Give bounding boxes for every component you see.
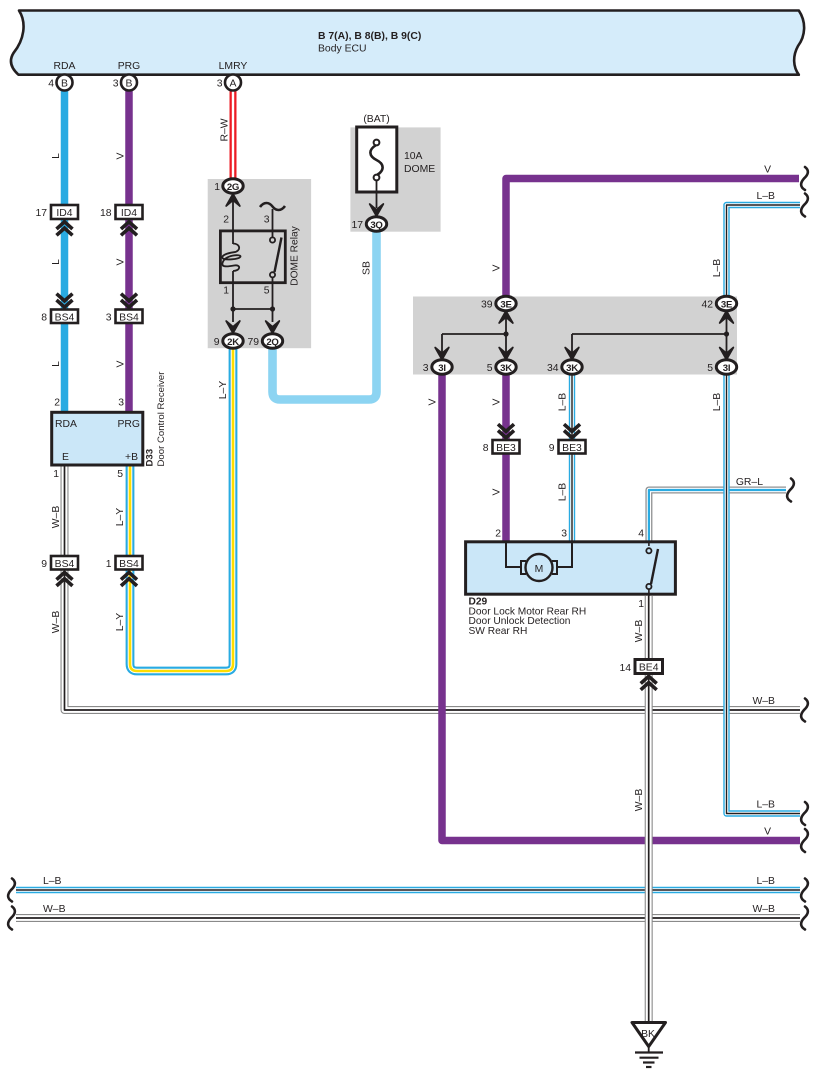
svg-text:18: 18: [100, 208, 112, 219]
svg-text:5: 5: [487, 363, 493, 374]
svg-text:V: V: [492, 264, 503, 271]
wire V from 3K to D29 pin2: [502, 367, 510, 542]
solid arrow down into 3Q: [370, 204, 384, 216]
svg-text:1: 1: [214, 182, 220, 193]
svg-text:SB: SB: [362, 261, 373, 275]
connector box BS4 lower right: [106, 556, 143, 586]
svg-text:L–B: L–B: [43, 876, 62, 887]
svg-text:1: 1: [638, 599, 644, 610]
svg-text:V: V: [116, 152, 127, 159]
svg-text:8: 8: [41, 313, 47, 324]
svg-text:5: 5: [117, 469, 123, 480]
solid arrow down into 3K right: [565, 348, 579, 360]
torn edge squiggle W-B right: [801, 699, 808, 722]
svg-text:V: V: [492, 488, 503, 495]
svg-text:M: M: [535, 564, 544, 575]
wire W-B bottom bus: [16, 914, 800, 922]
svg-text:3Q: 3Q: [370, 220, 383, 231]
ground symbol BK: [632, 1023, 666, 1068]
torn edge squiggle L-B right mid: [801, 802, 808, 825]
svg-text:L–Y: L–Y: [115, 508, 126, 527]
wire L-B from 3I right down and right: [727, 367, 801, 814]
tie line right: [572, 333, 727, 335]
svg-text:BE3: BE3: [562, 443, 582, 454]
svg-text:3E: 3E: [721, 299, 733, 310]
svg-text:5: 5: [707, 363, 713, 374]
svg-text:2: 2: [495, 529, 501, 540]
svg-text:L: L: [51, 259, 62, 265]
svg-text:B 7(A), B 8(B), B 9(C): B 7(A), B 8(B), B 9(C): [318, 31, 421, 42]
svg-text:V: V: [428, 398, 439, 405]
svg-text:GR–L: GR–L: [736, 477, 763, 488]
svg-text:1: 1: [223, 286, 229, 297]
svg-text:B: B: [126, 78, 133, 89]
svg-text:2: 2: [223, 214, 229, 225]
svg-text:V: V: [764, 165, 771, 176]
gray block DOME Relay background: [208, 179, 311, 348]
svg-text:V: V: [116, 360, 127, 367]
svg-text:3: 3: [113, 79, 119, 90]
relay inner box: [220, 231, 285, 283]
svg-text:3E: 3E: [500, 299, 512, 310]
svg-text:9: 9: [214, 337, 220, 348]
svg-text:2G: 2G: [227, 182, 239, 193]
torn edge squiggle GR-L: [787, 479, 794, 502]
svg-text:1: 1: [106, 559, 112, 570]
torn edge squiggle L-B top: [801, 194, 808, 217]
svg-text:17: 17: [351, 220, 363, 231]
squiggle to other circuit: [260, 203, 285, 210]
switch in D29: [646, 542, 658, 596]
wire L-B from 3K(34) to D29 pin3: [569, 367, 575, 542]
svg-text:L: L: [51, 361, 62, 367]
svg-text:W–B: W–B: [43, 904, 66, 915]
svg-text:BE4: BE4: [639, 663, 659, 674]
svg-text:D33: D33: [145, 449, 156, 467]
svg-text:42: 42: [701, 300, 713, 311]
wire GR-L from D29 pin4: [649, 490, 786, 542]
svg-text:3K: 3K: [500, 363, 512, 374]
torn edge squiggle L-B bus left: [8, 879, 15, 902]
svg-text:BK: BK: [641, 1029, 655, 1040]
solid arrow down into 3K left: [499, 348, 513, 360]
torn edge squiggle V top: [801, 167, 808, 190]
svg-text:L–B: L–B: [757, 876, 776, 887]
relay tie line with junctions: [233, 308, 273, 310]
svg-text:V: V: [492, 398, 503, 405]
svg-text:BS4: BS4: [55, 312, 75, 323]
svg-text:L–Y: L–Y: [115, 613, 126, 632]
svg-text:BS4: BS4: [119, 559, 139, 570]
torn edge squiggle W-B bus right: [801, 907, 808, 930]
svg-text:B: B: [61, 78, 68, 89]
connector box ID4 left: [35, 205, 78, 235]
wire R-W LMRY column: [230, 90, 237, 180]
svg-text:Body ECU: Body ECU: [318, 44, 367, 55]
oval connector 3I left: [432, 360, 452, 374]
svg-text:34: 34: [547, 363, 559, 374]
wire W-B left column and horizontal bus y=710: [65, 465, 801, 710]
oval connector 3K left: [496, 360, 516, 374]
svg-text:9: 9: [549, 443, 555, 454]
svg-text:3K: 3K: [566, 363, 578, 374]
wire L RDA column: [61, 90, 69, 413]
wire L-B top right from 3E right: [727, 205, 801, 297]
coil: [222, 244, 240, 272]
oval connector 3I right: [716, 360, 736, 374]
svg-text:ID4: ID4: [121, 208, 137, 219]
svg-text:W–B: W–B: [634, 620, 645, 643]
connector box BS4 lower left: [41, 556, 78, 586]
solid arrow down into 2K: [226, 321, 240, 333]
svg-text:L–Y: L–Y: [218, 381, 229, 400]
svg-text:RDA: RDA: [54, 61, 76, 72]
svg-text:LMRY: LMRY: [219, 61, 248, 72]
oval connector 3E left: [496, 296, 516, 310]
svg-text:2K: 2K: [227, 337, 239, 348]
svg-text:3: 3: [118, 398, 124, 409]
solid arrow up into 3E left: [499, 311, 513, 323]
gray block junction band J/B background: [413, 297, 737, 375]
coil wire from 2G arrow to coil: [232, 200, 234, 244]
svg-text:3: 3: [264, 214, 270, 225]
junction dot band right: [724, 331, 729, 336]
svg-text:17: 17: [35, 208, 47, 219]
solid arrow down into 2Q: [266, 321, 280, 333]
oval connector 3K right: [562, 360, 582, 374]
svg-text:3I: 3I: [438, 363, 446, 374]
svg-text:L–B: L–B: [712, 393, 723, 412]
svg-text:RDA: RDA: [55, 419, 77, 430]
svg-text:R–W: R–W: [220, 118, 231, 141]
wire L-B bottom bus: [16, 887, 800, 893]
circle connector A (LMRY): [225, 75, 241, 91]
svg-text:DOME Relay: DOME Relay: [290, 225, 301, 285]
torn edge squiggle W-B bus left: [8, 907, 15, 930]
fuse 10A DOME: [357, 127, 397, 192]
svg-text:ID4: ID4: [56, 208, 72, 219]
circle connector B (PRG): [121, 75, 137, 91]
svg-text:4: 4: [48, 79, 54, 90]
oval connector 2K: [223, 334, 243, 348]
svg-text:79: 79: [247, 337, 259, 348]
svg-text:W–B: W–B: [51, 506, 62, 529]
svg-text:PRG: PRG: [118, 61, 141, 72]
connector box ID4 right: [100, 205, 143, 235]
connector box BE3 right: [549, 424, 586, 454]
svg-text:10A: 10A: [404, 151, 423, 162]
torn edge squiggle V bus right: [801, 829, 808, 852]
wire V top bus from 3E left: [506, 179, 799, 298]
solid arrow down into 3I right: [720, 348, 734, 360]
svg-text:3: 3: [106, 313, 112, 324]
svg-text:3: 3: [561, 529, 567, 540]
svg-text:5: 5: [264, 286, 270, 297]
junction dot relay 5: [270, 306, 275, 311]
circle connector B (RDA): [57, 75, 73, 91]
svg-text:39: 39: [481, 300, 493, 311]
solid arrow up into 3E right: [720, 311, 734, 323]
svg-text:9: 9: [41, 559, 47, 570]
svg-text:L–B: L–B: [558, 393, 569, 412]
svg-text:Door Control Receiver: Door Control Receiver: [156, 371, 167, 467]
DOME Relay internals: [220, 200, 285, 322]
wire W-B vertical from D29 pin1 to ground: [645, 596, 653, 1022]
svg-text:W–B: W–B: [51, 611, 62, 634]
svg-text:+B: +B: [125, 452, 138, 463]
svg-text:V: V: [116, 258, 127, 265]
svg-text:3I: 3I: [723, 363, 731, 374]
svg-text:2Q: 2Q: [266, 337, 279, 348]
svg-text:PRG: PRG: [117, 419, 140, 430]
gray block fuse background: [350, 127, 440, 231]
Body ECU band: [11, 11, 804, 75]
svg-text:4: 4: [638, 529, 644, 540]
svg-text:(BAT): (BAT): [363, 114, 389, 125]
solid arrow down into 3I left: [435, 348, 449, 360]
svg-text:L: L: [51, 153, 62, 159]
3E left riser: [505, 311, 507, 334]
torn edge squiggle L-B bus right: [801, 879, 808, 902]
D33 Door Control Receiver box: [52, 412, 143, 465]
connector box BS4 upper right: [106, 294, 143, 324]
connector box BS4 upper left: [41, 294, 78, 324]
oval connector 3E right: [716, 296, 736, 310]
svg-text:BS4: BS4: [55, 559, 75, 570]
svg-text:W–B: W–B: [752, 696, 775, 707]
D29 box: [466, 542, 676, 594]
oval connector 2G: [223, 179, 243, 193]
svg-text:2: 2: [54, 398, 60, 409]
solid arrow up into 2G: [226, 194, 240, 206]
junction dot band left: [503, 331, 508, 336]
svg-text:W–B: W–B: [634, 789, 645, 812]
svg-text:BS4: BS4: [119, 312, 139, 323]
svg-text:L–B: L–B: [712, 259, 723, 278]
svg-text:3: 3: [217, 79, 223, 90]
connector box BE3 left: [483, 424, 520, 454]
svg-text:A: A: [230, 78, 237, 89]
tie line left: [442, 333, 506, 335]
wire SB: 2Q to fuse 3Q: [273, 232, 377, 400]
switch pin3 wire: [272, 209, 274, 237]
svg-text:L–B: L–B: [558, 483, 569, 502]
svg-text:3: 3: [423, 363, 429, 374]
oval connector 3Q: [366, 217, 386, 231]
wire L-Y loop: D33 +B to relay 2K: [130, 349, 233, 671]
svg-text:E: E: [62, 452, 69, 463]
wire V PRG column: [125, 90, 133, 413]
svg-text:L–B: L–B: [757, 191, 776, 202]
svg-text:14: 14: [619, 663, 631, 674]
wire V from 3I left down to V bus right: [442, 367, 800, 841]
connector box BE4: [619, 660, 662, 690]
svg-text:BE3: BE3: [496, 443, 516, 454]
svg-text:DOME: DOME: [404, 164, 435, 175]
svg-text:W–B: W–B: [752, 904, 775, 915]
svg-text:V: V: [764, 827, 771, 838]
3E right riser: [726, 311, 728, 334]
junction band internals: [442, 311, 727, 359]
svg-text:L–B: L–B: [757, 800, 776, 811]
junction dot relay 1: [230, 306, 235, 311]
svg-text:8: 8: [483, 443, 489, 454]
svg-text:1: 1: [53, 469, 59, 480]
oval connector 2Q: [262, 334, 282, 348]
svg-text:SW Rear RH: SW Rear RH: [469, 626, 528, 637]
motor M in D29: [506, 542, 572, 581]
